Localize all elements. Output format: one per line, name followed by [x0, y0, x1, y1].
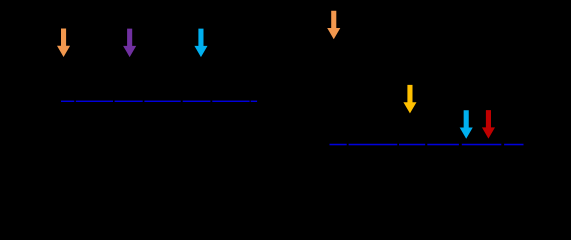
- right underline segment R5: [462, 144, 502, 146]
- right underline segment R6: [504, 144, 523, 146]
- arrow A3 light-blue: [194, 29, 207, 57]
- right underline segment R3: [399, 144, 425, 146]
- left underline segment L2: [76, 101, 113, 102]
- left underline segment L4: [144, 101, 180, 102]
- left underline segment L1: [61, 101, 74, 102]
- left underline segment L3: [115, 101, 143, 102]
- arrow A4 orange (top-right): [327, 11, 340, 40]
- arrow A5 yellow: [403, 85, 416, 114]
- arrow A6 light-blue (right): [460, 110, 473, 139]
- arrow A7 red: [482, 110, 495, 139]
- left underline segment L5: [183, 101, 211, 102]
- left underline segment L7: [251, 101, 257, 102]
- right underline segment R4: [427, 144, 459, 146]
- right underline segment R1: [330, 144, 347, 146]
- arrow A2 purple: [123, 29, 136, 57]
- right underline segment R2: [349, 144, 398, 146]
- arrow A1 orange (top-left): [57, 29, 70, 58]
- left underline segment L6: [212, 101, 249, 102]
